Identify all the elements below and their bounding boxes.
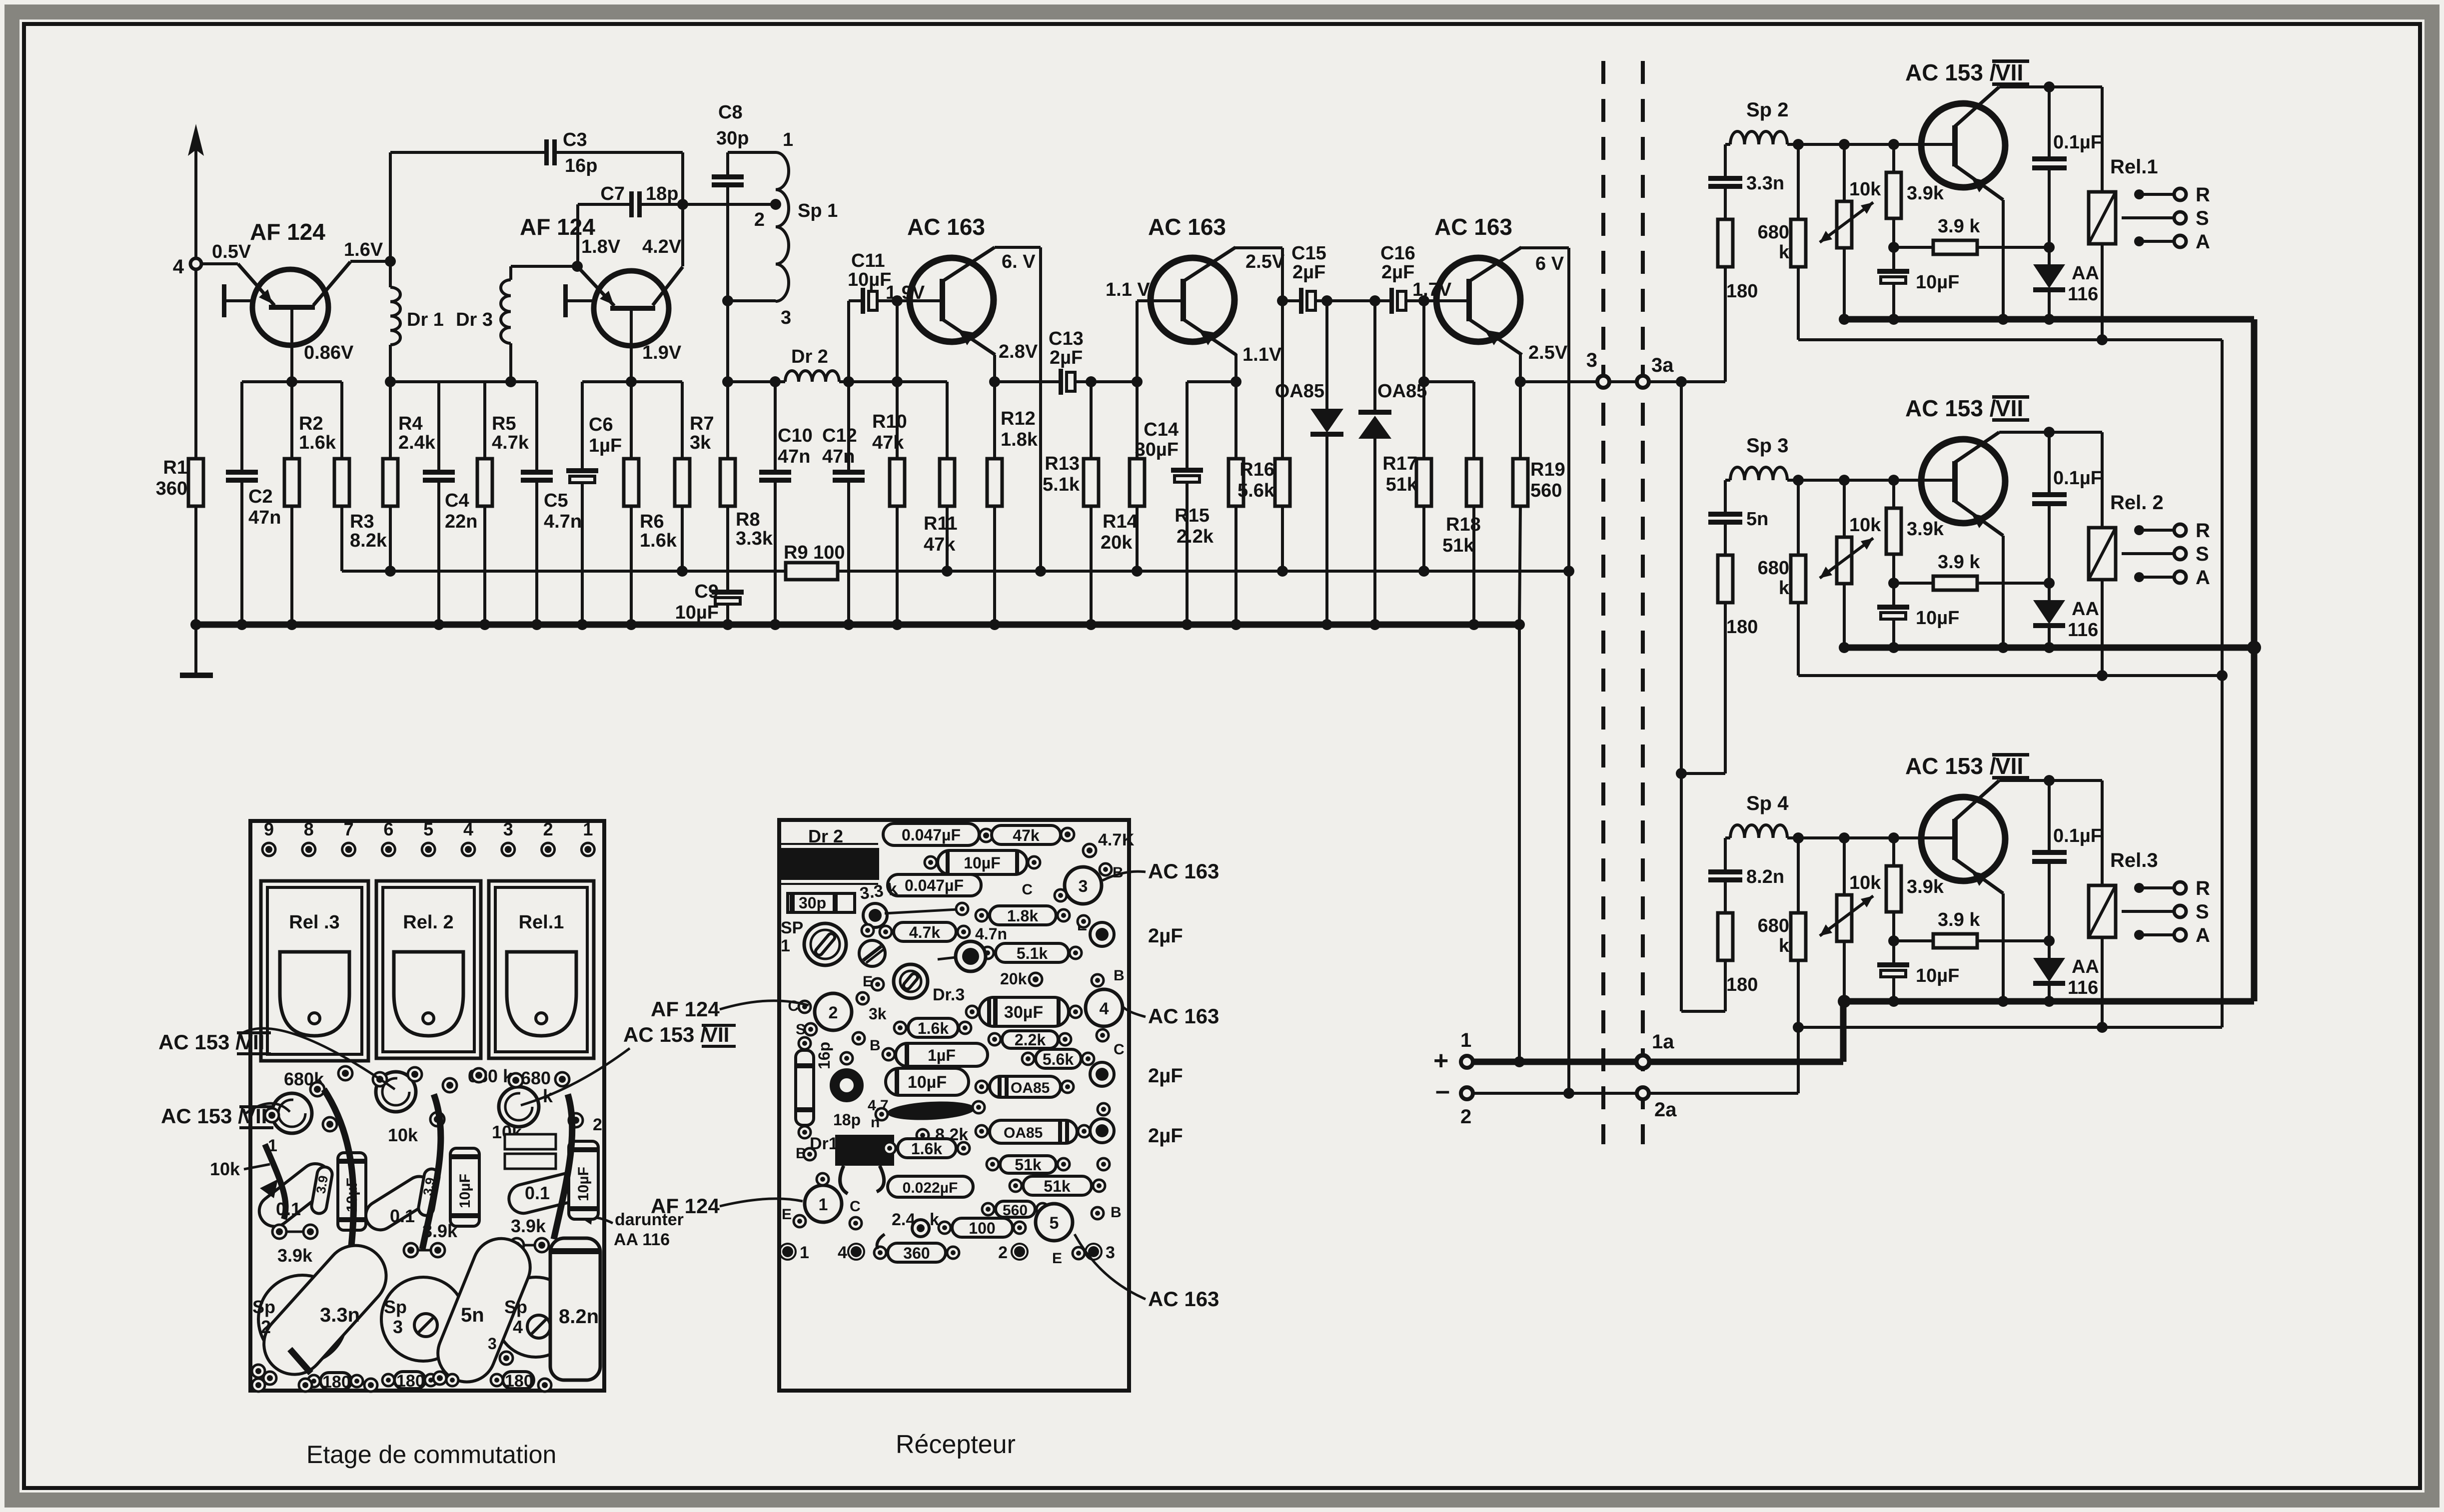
svg-text:1: 1 <box>1460 1029 1471 1051</box>
svg-text:8.2n: 8.2n <box>1746 866 1784 887</box>
label 3.9k mid with pads <box>404 1243 418 1257</box>
svg-text:4: 4 <box>173 256 184 278</box>
svg-text:10µF: 10µF <box>1916 608 1959 629</box>
svg-text:SP: SP <box>781 918 803 937</box>
svg-text:R13: R13 <box>1045 453 1080 474</box>
svg-text:47n: 47n <box>822 446 855 467</box>
svg-text:S: S <box>2196 901 2209 923</box>
svg-text:1.6k: 1.6k <box>640 530 677 551</box>
svg-text:C5: C5 <box>544 490 568 511</box>
svg-text:R10: R10 <box>872 411 907 432</box>
svg-text:2: 2 <box>829 1003 838 1022</box>
resistor R8 3.3k <box>726 382 729 459</box>
contact S <box>2122 216 2174 219</box>
capsule OA85 first <box>990 1076 1061 1097</box>
svg-text:1.6k: 1.6k <box>918 1019 949 1037</box>
resistor R6 1.6k <box>630 382 633 459</box>
svg-text:1.8k: 1.8k <box>1007 907 1038 925</box>
svg-text:VII: VII <box>1995 59 2023 85</box>
capsule 10uF second <box>886 1068 969 1095</box>
resistor bodies right horizontal <box>505 1134 556 1149</box>
wire emitter Q4 <box>1234 354 1237 382</box>
coil Sp 2 <box>1725 143 1730 146</box>
svg-text:3.3n: 3.3n <box>1746 173 1784 194</box>
svg-text:4.7k: 4.7k <box>909 923 940 941</box>
diode AA116 <box>2048 941 2051 958</box>
svg-text:R12: R12 <box>1001 408 1036 429</box>
node base Q5 <box>1418 295 1429 306</box>
svg-text:180: 180 <box>396 1372 425 1391</box>
svg-text:3: 3 <box>393 1317 403 1337</box>
svg-text:1.6k: 1.6k <box>911 1140 942 1158</box>
svg-text:Rel.1: Rel.1 <box>2110 156 2158 178</box>
wire emitter Q2 <box>577 266 614 306</box>
svg-text:AC 153 /: AC 153 / <box>158 1030 241 1054</box>
resistor R10 47k <box>896 301 899 382</box>
svg-text:R14: R14 <box>1103 511 1138 532</box>
svg-text:VII: VII <box>1995 753 2023 779</box>
svg-text:1: 1 <box>268 1136 277 1155</box>
svg-text:4.7: 4.7 <box>1098 830 1122 849</box>
svg-text:5.6k: 5.6k <box>1237 480 1275 501</box>
resistor R3 8.2k <box>340 382 343 459</box>
wire west bias row <box>242 380 342 383</box>
ground <box>194 625 197 674</box>
relay Rel.3 <box>2101 780 2104 885</box>
svg-text:3.9k: 3.9k <box>1907 183 1944 204</box>
wire emitter Q2 branch <box>576 204 579 266</box>
transistor case T3 <box>499 1087 539 1127</box>
relay outline Rel.1 <box>489 881 594 1058</box>
svg-text:C13: C13 <box>1049 328 1084 349</box>
svg-text:5: 5 <box>1050 1214 1059 1233</box>
transistor Q4 AC163 <box>1151 258 1234 342</box>
svg-text:AC 153 /: AC 153 / <box>1905 59 1996 85</box>
electrolytic 10uF mid <box>450 1148 479 1226</box>
svg-text:S: S <box>2196 543 2209 565</box>
wire base Q1 down <box>290 310 293 382</box>
svg-text:4.7k: 4.7k <box>492 432 529 453</box>
collector wire <box>1954 87 1999 127</box>
terminal 4 <box>190 258 201 269</box>
diode OA85 D1 <box>1325 301 1328 409</box>
transistor 4 case <box>1086 989 1123 1026</box>
contact R <box>2134 883 2144 893</box>
svg-text:360: 360 <box>903 1244 930 1262</box>
svg-text:Dr 1: Dr 1 <box>407 309 444 330</box>
relay outline Rel.3 <box>261 881 368 1061</box>
wire takeoff stage3 <box>1681 1010 1725 1013</box>
svg-text:Rel. 2: Rel. 2 <box>403 912 453 933</box>
cap 8.2n and resistor 180 column <box>1724 838 1727 869</box>
svg-text:10µF: 10µF <box>675 602 719 623</box>
capacitor C3 16p <box>544 139 549 165</box>
pin 9 <box>262 843 275 856</box>
node C15 takeoff <box>1277 295 1288 306</box>
wire emitter Q3 <box>993 355 996 382</box>
capsule 4.7k <box>894 922 956 941</box>
capacitor C6 1uF <box>581 382 584 468</box>
svg-text:560: 560 <box>1003 1202 1028 1219</box>
svg-text:10k: 10k <box>1849 872 1881 893</box>
svg-text:30µF: 30µF <box>1004 1003 1043 1022</box>
wire minus net to 680k stage3 <box>1797 1027 1800 1093</box>
svg-text:16p: 16p <box>815 1042 833 1069</box>
node base Q2 row <box>626 376 637 387</box>
svg-text:R4: R4 <box>398 413 423 434</box>
node C7 row <box>677 199 688 210</box>
capacitor C8 30p <box>726 152 729 174</box>
capsule 0.047uF second <box>888 874 981 896</box>
svg-text:180: 180 <box>1726 974 1758 995</box>
capacitor C14 30uF <box>1187 380 1236 383</box>
electrolytic 10uF right <box>569 1141 598 1219</box>
svg-text:R11: R11 <box>924 513 958 534</box>
resistor R9 100 <box>786 563 838 580</box>
antenna arrow <box>188 124 204 156</box>
svg-text:S: S <box>2196 207 2209 229</box>
resistor R18 51k <box>1424 380 1474 383</box>
svg-text:AA: AA <box>2072 599 2099 620</box>
capacitor 0.1uF <box>2048 432 2051 492</box>
wire emitter Q5 to terminal 3 <box>1519 353 1522 382</box>
capacitor C2 47n <box>240 382 243 470</box>
inductor Dr2 <box>785 371 839 382</box>
svg-text:C: C <box>1114 1041 1125 1058</box>
svg-text:C9: C9 <box>694 581 719 602</box>
svg-text:10µF: 10µF <box>964 854 1001 872</box>
coil Sp 3 <box>1725 479 1730 482</box>
relay return wire <box>1798 674 2222 677</box>
svg-text:2: 2 <box>754 209 765 230</box>
svg-text:C: C <box>850 1198 861 1215</box>
svg-text:C: C <box>788 998 799 1014</box>
svg-text:3.9 k: 3.9 k <box>1938 909 1980 930</box>
svg-text:1.9V: 1.9V <box>642 342 682 363</box>
svg-text:–: – <box>1435 1076 1450 1105</box>
capsule 30uF <box>979 997 1069 1026</box>
capacitor C11 10uF <box>861 288 865 314</box>
inductor Dr1 <box>390 287 400 345</box>
svg-text:3k: 3k <box>869 1005 887 1023</box>
svg-text:10µF: 10µF <box>575 1167 592 1201</box>
svg-text:A: A <box>2196 924 2210 946</box>
svg-text:1: 1 <box>800 1243 809 1262</box>
svg-text:Rel .3: Rel .3 <box>289 912 339 933</box>
resistor R2 1.6k <box>290 382 293 459</box>
transistor case T2 <box>272 1093 312 1133</box>
svg-text:AA: AA <box>2072 263 2099 284</box>
electrolytic 10uF left <box>338 1153 366 1230</box>
svg-text:2a: 2a <box>1654 1099 1677 1121</box>
svg-text:2.5V: 2.5V <box>1245 251 1285 272</box>
wire base row Rel. 2 stage <box>1787 479 1953 482</box>
svg-text:C2: C2 <box>248 486 273 507</box>
svg-text:C6: C6 <box>589 414 613 435</box>
node Sp1 bottom <box>722 295 733 306</box>
node bus R7 <box>677 566 688 577</box>
resistor R1 360 <box>194 269 197 459</box>
potentiometer 10k <box>1843 838 1846 895</box>
svg-text:AF 124: AF 124 <box>520 214 595 240</box>
potentiometer 10k <box>1843 480 1846 537</box>
svg-text:1µF: 1µF <box>928 1046 956 1064</box>
relay return wire <box>1798 1026 2222 1029</box>
svg-text:k: k <box>1779 935 1790 956</box>
svg-text:AA: AA <box>2072 956 2099 977</box>
wire collector Q5 <box>1519 246 1569 249</box>
washer <box>835 1073 859 1097</box>
svg-text:AF 124: AF 124 <box>250 219 325 245</box>
svg-text:R: R <box>2196 877 2210 899</box>
relay Rel. 2 <box>2101 432 2104 528</box>
wire row 2 <box>1473 1092 1798 1095</box>
svg-text:Dr.3: Dr.3 <box>933 985 965 1004</box>
wire collector Q3 <box>995 246 1041 249</box>
resistor 3.9k vertical <box>1892 144 1895 172</box>
svg-text:20k: 20k <box>1101 532 1133 553</box>
resistor R13 5.1k <box>1090 382 1093 459</box>
contact S <box>2122 552 2174 555</box>
svg-text:R6: R6 <box>640 511 664 532</box>
svg-text:R7: R7 <box>690 413 714 434</box>
wire base row Rel.3 stage <box>1787 836 1953 839</box>
label 3.9k right with pads <box>510 1238 524 1252</box>
svg-text:2: 2 <box>1460 1106 1471 1128</box>
capacitor 10uF <box>1892 583 1895 605</box>
node bus R14 <box>1132 566 1143 577</box>
svg-text:3k: 3k <box>690 432 711 453</box>
svg-text:10k: 10k <box>1849 179 1881 200</box>
resistor R17 51k <box>1422 301 1425 382</box>
svg-text:R18: R18 <box>1446 514 1481 535</box>
svg-text:R: R <box>2196 520 2210 542</box>
node bus R17 <box>1418 566 1429 577</box>
capsule 1.8k <box>990 906 1056 925</box>
svg-text:C12: C12 <box>822 425 857 446</box>
svg-text:R: R <box>2196 184 2210 206</box>
svg-text:1µF: 1µF <box>589 435 622 456</box>
svg-text:AC 153 /: AC 153 / <box>161 1104 244 1128</box>
svg-text:0.022µF: 0.022µF <box>903 1180 958 1196</box>
svg-text:C10: C10 <box>778 425 813 446</box>
resistor 3.9 body mid <box>417 1168 440 1217</box>
pad 2uF lower <box>1090 1119 1114 1143</box>
resistor 3.9 body left <box>310 1166 333 1215</box>
svg-text:47k: 47k <box>872 432 904 453</box>
capacitor C7 18p <box>629 191 634 217</box>
svg-text:3: 3 <box>1106 1243 1115 1262</box>
black wedge <box>260 1179 278 1198</box>
svg-text:1.1 V: 1.1 V <box>1106 279 1150 300</box>
wire mid bias row <box>390 380 537 383</box>
svg-text:AC 163: AC 163 <box>1148 1004 1219 1028</box>
svg-text:+: + <box>1433 1046 1448 1075</box>
svg-text:47k: 47k <box>924 534 956 555</box>
svg-text:C15: C15 <box>1291 243 1326 264</box>
pad 2uF mid <box>1090 1062 1114 1086</box>
svg-text:2: 2 <box>998 1243 1008 1262</box>
trimmer core Sp2 <box>258 1275 346 1363</box>
svg-text:10µF: 10µF <box>848 269 891 290</box>
svg-text:4.2V: 4.2V <box>642 236 682 257</box>
coil Sp 4 <box>1725 836 1730 839</box>
svg-text:3: 3 <box>1079 877 1088 896</box>
svg-text:2.4k: 2.4k <box>398 432 436 453</box>
svg-text:30p: 30p <box>716 128 749 149</box>
capsule 100 <box>952 1218 1013 1237</box>
svg-text:3: 3 <box>781 307 791 328</box>
svg-text:1.8k: 1.8k <box>1001 429 1038 450</box>
fat wire mid <box>422 1094 441 1249</box>
svg-text:10k: 10k <box>1849 515 1881 536</box>
svg-text:2µF: 2µF <box>1148 1125 1183 1147</box>
capsule OA85 second <box>990 1120 1077 1143</box>
diode germanium body <box>887 1099 976 1122</box>
svg-text:C14: C14 <box>1144 419 1179 440</box>
svg-text:0.5V: 0.5V <box>212 241 251 262</box>
wire base row Rel.1 stage <box>1787 143 1953 146</box>
svg-text:C8: C8 <box>718 102 743 123</box>
contact A <box>2134 572 2144 582</box>
svg-text:30p: 30p <box>799 894 826 912</box>
choke Dr2 body <box>781 843 878 845</box>
fat wire left <box>324 1089 354 1259</box>
wire takeoff stage2 <box>1681 772 1725 775</box>
svg-text:AC 163: AC 163 <box>1148 214 1226 240</box>
svg-text:3.9 k: 3.9 k <box>1938 552 1980 573</box>
capsule 0.022uF <box>888 1176 973 1197</box>
wire bias bus <box>342 570 785 573</box>
svg-text:7: 7 <box>344 819 354 839</box>
relay Rel.1 <box>2101 87 2104 192</box>
pad 2uF upper <box>1090 922 1114 946</box>
pin 1 <box>581 843 594 856</box>
screw pad <box>859 940 885 966</box>
node bus collector Q3 <box>1035 566 1046 577</box>
svg-text:Sp 2: Sp 2 <box>1746 99 1788 121</box>
transistor AC153 Rel. 2 <box>1921 439 2005 523</box>
capsule 10uF horiz <box>938 850 1027 874</box>
terminal 1a <box>1636 1055 1649 1068</box>
svg-text:3a: 3a <box>1651 354 1674 376</box>
svg-text:Sp: Sp <box>504 1297 527 1317</box>
svg-text:R1: R1 <box>163 457 187 478</box>
node base Q1 row <box>286 376 297 387</box>
trimmer Dr.3 <box>894 964 928 998</box>
svg-text:2.2k: 2.2k <box>1015 1031 1046 1049</box>
node collector Q1 <box>385 256 396 267</box>
capacitor 10uF <box>1892 247 1895 269</box>
svg-text:3: 3 <box>488 1335 497 1353</box>
capsule 360 <box>888 1243 946 1262</box>
wire return vertical <box>2221 340 2224 1027</box>
svg-text:Rel.1: Rel.1 <box>519 912 564 933</box>
capsule 560 <box>996 1201 1035 1217</box>
emitter bus thick <box>1844 645 2254 651</box>
svg-text:k: k <box>1779 242 1790 263</box>
svg-text:AF 124: AF 124 <box>651 997 720 1021</box>
svg-text:R5: R5 <box>492 413 516 434</box>
rail junction dots <box>190 619 201 630</box>
pot oval mid 0.1 <box>360 1171 439 1236</box>
svg-text:1a: 1a <box>1652 1031 1674 1053</box>
transistor 5 case <box>1036 1204 1073 1241</box>
pin 6 <box>382 843 395 856</box>
svg-text:47n: 47n <box>778 446 810 467</box>
resistor R12 1.8k <box>993 382 996 459</box>
wire C7 row <box>578 203 629 206</box>
svg-text:AA 116: AA 116 <box>614 1230 670 1249</box>
wire antenna lead <box>194 131 197 258</box>
wire base Q1 <box>201 262 238 265</box>
svg-text:22n: 22n <box>445 511 477 532</box>
emitter bus thick <box>1844 998 2254 1005</box>
resistor 3.9k horizontal <box>1894 246 1933 249</box>
transistor Q5 AC163 <box>1436 258 1520 342</box>
wire C3 row <box>389 152 392 261</box>
resistor 680k <box>1797 480 1800 555</box>
transistor Q2 AF124 <box>594 271 669 346</box>
svg-text:1.1V: 1.1V <box>1242 344 1282 365</box>
emitter bus thick <box>1844 316 2254 323</box>
wire C3 to junction <box>557 151 683 154</box>
resistor R7 3k <box>681 382 684 459</box>
pad filled big <box>956 941 986 971</box>
svg-text:OA85: OA85 <box>1011 1080 1050 1096</box>
svg-text:2.2k: 2.2k <box>1177 526 1214 547</box>
capsule 0.047uF top <box>883 823 979 845</box>
resistor R16 5.6k <box>1281 301 1284 459</box>
svg-text:1.6k: 1.6k <box>299 432 336 453</box>
svg-text:680: 680 <box>521 1068 551 1088</box>
svg-text:4: 4 <box>838 1243 847 1262</box>
svg-text:0.1µF: 0.1µF <box>2053 132 2102 153</box>
svg-text:3.9k: 3.9k <box>1907 519 1944 540</box>
fat wire right <box>554 1094 572 1239</box>
diode AA116 <box>2048 247 2051 264</box>
svg-text:AC 163: AC 163 <box>907 214 985 240</box>
cap 3.3n and resistor 180 column <box>1724 144 1727 176</box>
svg-text:1.7V: 1.7V <box>1412 279 1452 300</box>
svg-text:R16: R16 <box>1239 459 1274 480</box>
svg-text:Sp: Sp <box>252 1297 275 1317</box>
svg-text:k: k <box>1779 578 1790 599</box>
svg-text:Récepteur: Récepteur <box>896 1430 1016 1459</box>
svg-text:3.9k: 3.9k <box>1907 876 1944 897</box>
capacitor body 8.2n <box>550 1238 600 1380</box>
svg-text:2.5V: 2.5V <box>1528 342 1568 363</box>
capacitor 0.1uF <box>2048 780 2051 850</box>
transistor 3 case <box>1065 867 1102 904</box>
contact A <box>2134 930 2144 940</box>
node C12 <box>843 376 854 387</box>
svg-text:10µF: 10µF <box>908 1073 947 1092</box>
wire east bias row <box>582 380 682 383</box>
svg-text:R8: R8 <box>736 509 760 530</box>
resistor 3.9k horizontal <box>1894 939 1933 942</box>
shield electrode Q1 <box>222 284 226 317</box>
svg-text:1: 1 <box>583 819 593 839</box>
wire collector Q2 <box>653 267 683 305</box>
capacitor C12 47n <box>847 382 850 470</box>
capacitor C5 4.7n <box>535 382 538 470</box>
transistor Q3 AC163 <box>910 258 994 342</box>
svg-text:4: 4 <box>513 1317 523 1337</box>
svg-text:6: 6 <box>383 819 393 839</box>
svg-text:2: 2 <box>543 819 553 839</box>
collector wire <box>1954 780 1999 821</box>
